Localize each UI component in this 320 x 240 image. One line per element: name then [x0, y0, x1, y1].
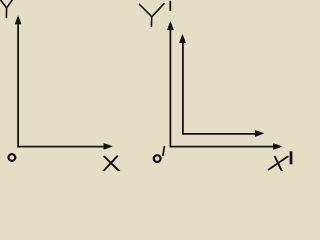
outer Y-axis line (right frame)	[169, 27, 171, 147]
x-axis arrowhead (left frame)	[104, 143, 113, 150]
label x-prime tick (right frame)	[290, 151, 293, 164]
origin o (left frame)	[9, 154, 16, 161]
outer Y-axis arrowhead (right frame)	[167, 21, 174, 30]
label Y (left frame)	[0, 0, 12, 18]
inner Y-axis line (right frame)	[182, 40, 184, 134]
label Y-prime glyph Y (right frame)	[140, 4, 165, 27]
Y-axis line (left frame)	[17, 21, 19, 147]
origin o-prime circle (right frame)	[154, 155, 161, 162]
inner x-axis line (right frame)	[182, 133, 257, 135]
label x-prime glyph x (right frame)	[269, 157, 288, 172]
inner x-axis arrowhead (right frame)	[255, 130, 264, 137]
inner Y-axis arrowhead (right frame)	[179, 34, 186, 43]
outer x-axis arrowhead (right frame)	[273, 143, 282, 150]
outer x-axis line (right frame)	[170, 146, 276, 148]
Y-axis arrowhead (left frame)	[15, 15, 22, 24]
label x (left frame)	[102, 156, 120, 172]
x-axis line (left frame)	[17, 146, 105, 148]
origin o-prime tick (right frame)	[163, 147, 165, 156]
label Y-prime tick (right frame)	[169, 2, 171, 11]
